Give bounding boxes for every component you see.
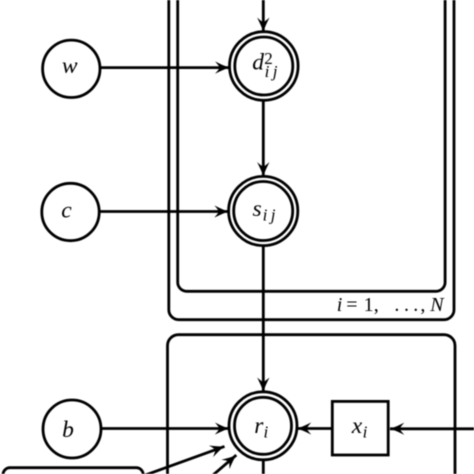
edge s to r [262,246,265,392]
edge b to r [101,427,229,430]
plate bottom-left (cut off box) [3,468,143,474]
node c [42,183,99,240]
wire top into d2 [262,0,265,32]
edge c to s [99,210,228,213]
svg-text:w: w [62,53,78,79]
node w [43,40,100,97]
plate bottom (second plate) [168,335,456,474]
edge d2 to s [262,100,265,176]
node ri (observed, double circle) [229,392,297,460]
wire diagonal 2 into r [211,455,237,474]
plate label i = 1,...,N [337,294,445,316]
node xi (square) [332,401,388,455]
node b [43,400,101,458]
edge x to r [297,427,332,430]
edge w to d2 [100,66,229,69]
wire r to bottom [262,460,265,474]
svg-text:c: c [61,198,72,224]
plate j (inner) [178,0,445,291]
svg-text:b: b [62,417,74,443]
node sij (observed, double circle) [229,176,298,245]
plate i (outer, label i = 1,...,N) [169,0,454,320]
wire right into x [390,427,474,430]
wire diagonal 1 into r [140,446,225,474]
node d2ij (observed, double circle) [229,32,298,101]
